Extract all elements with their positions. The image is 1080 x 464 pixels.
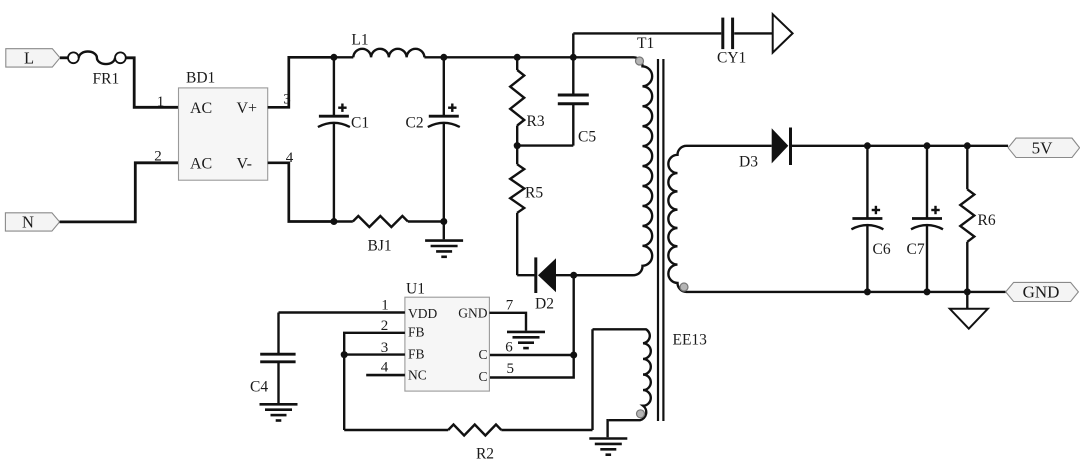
svg-text:R2: R2 (476, 446, 494, 463)
resistor R5 (510, 146, 524, 276)
node (330, 218, 337, 225)
polarity dot (636, 57, 644, 65)
node (570, 272, 577, 279)
node (924, 142, 931, 149)
svg-text:N: N (22, 213, 34, 232)
svg-text:7: 7 (506, 298, 514, 314)
node (514, 54, 521, 61)
svg-text:FR1: FR1 (93, 71, 120, 88)
pin 4 (286, 150, 294, 166)
node (864, 288, 871, 295)
wire (334, 220, 353, 222)
terminal GND (1006, 282, 1079, 301)
resistor R2 (448, 425, 501, 436)
ground (260, 404, 298, 420)
label D2 (535, 296, 554, 313)
wire (966, 292, 968, 309)
svg-text:BD1: BD1 (186, 70, 215, 87)
wire (573, 33, 721, 57)
pin 4 (381, 359, 389, 375)
capacitor CY1 (723, 18, 773, 49)
svg-text:FB: FB (408, 325, 425, 340)
terminal 5V (1008, 138, 1080, 158)
svg-text:5: 5 (506, 361, 514, 377)
svg-text:D3: D3 (739, 154, 758, 171)
svg-text:T1: T1 (637, 35, 654, 52)
svg-text:GND: GND (1023, 283, 1060, 302)
svg-text:C1: C1 (351, 115, 369, 132)
label FR1 (93, 71, 120, 88)
node (964, 142, 971, 149)
label CY1 (717, 49, 746, 66)
wire (126, 58, 179, 108)
svg-text:R6: R6 (978, 212, 996, 229)
svg-text:R5: R5 (525, 185, 543, 202)
wire (279, 311, 405, 313)
node (514, 142, 521, 149)
pin 6 (505, 339, 513, 355)
node (330, 54, 337, 61)
wire (424, 56, 633, 58)
svg-text:C4: C4 (250, 379, 268, 396)
ground (507, 332, 545, 348)
diode D3 (772, 128, 868, 166)
pin 3 (381, 340, 389, 356)
pin 2 (154, 149, 162, 165)
label U1 (406, 281, 425, 298)
svg-text:U1: U1 (406, 281, 425, 298)
transformer core (658, 59, 663, 421)
pin 2 (381, 318, 389, 334)
node (570, 54, 577, 61)
label BJ1 (368, 238, 392, 255)
ground (425, 222, 463, 257)
polarity dot (637, 410, 645, 418)
resistor R6 (960, 146, 974, 292)
ground (950, 309, 988, 329)
label T1 (637, 35, 654, 52)
diode D2 (517, 257, 633, 293)
terminal L (6, 49, 60, 68)
polarity dot (680, 283, 688, 291)
terminal N (5, 213, 59, 232)
svg-text:6: 6 (505, 339, 513, 355)
node (964, 288, 971, 295)
node (570, 352, 577, 359)
label EE13 (673, 332, 708, 349)
terminal chassis (773, 14, 793, 52)
capacitor C7 (911, 146, 943, 292)
svg-text:CY1: CY1 (717, 49, 746, 66)
pin 1 (381, 298, 389, 314)
transformer T1 primary (574, 57, 652, 275)
svg-text:NC: NC (408, 368, 427, 383)
svg-text:V-: V- (237, 156, 252, 173)
pin 7 (506, 298, 514, 314)
pin 5 (506, 361, 514, 377)
svg-text:5V: 5V (1032, 139, 1054, 158)
svg-text:R3: R3 (527, 113, 545, 130)
svg-text:V+: V+ (237, 100, 258, 117)
svg-text:VDD: VDD (408, 306, 437, 321)
label C7 (907, 241, 925, 258)
capacitor C4 (260, 313, 295, 404)
fuse FR1 (68, 52, 126, 65)
svg-text:GND: GND (458, 306, 487, 321)
wire (501, 329, 592, 430)
label BD1 (186, 70, 215, 87)
svg-text:L1: L1 (351, 32, 368, 49)
ground (589, 420, 627, 455)
svg-text:EE13: EE13 (673, 332, 708, 349)
pin 3 (283, 92, 291, 108)
controller U1 (405, 297, 490, 391)
svg-text:C7: C7 (907, 241, 925, 258)
transformer T1 secondary (668, 146, 867, 292)
label R6 (978, 212, 996, 229)
bridge rectifier BD1 (179, 88, 268, 180)
wire (60, 163, 179, 222)
label C1 (351, 115, 369, 132)
transformer T1 auxiliary (593, 329, 651, 420)
svg-text:4: 4 (381, 359, 389, 375)
wire (489, 354, 573, 356)
wire (366, 374, 405, 377)
label D3 (739, 154, 758, 171)
svg-text:AC: AC (190, 156, 212, 173)
svg-text:C2: C2 (406, 115, 424, 132)
node (440, 218, 447, 225)
wire (344, 333, 405, 430)
svg-text:C: C (478, 347, 487, 362)
resistor BJ1 (353, 216, 408, 227)
wire (268, 57, 334, 107)
capacitor C5 (517, 57, 589, 145)
capacitor C6 (851, 146, 883, 292)
svg-text:2: 2 (154, 149, 162, 165)
svg-text:AC: AC (190, 100, 212, 117)
label C2 (406, 115, 424, 132)
node (440, 54, 447, 61)
capacitor C2 (428, 57, 460, 221)
wire (867, 145, 1008, 147)
label C6 (873, 241, 891, 258)
inductor L1 (353, 49, 424, 57)
label L1 (351, 32, 368, 49)
wire (489, 313, 526, 331)
svg-text:C6: C6 (873, 241, 891, 258)
label R3 (527, 113, 545, 130)
svg-text:C: C (478, 369, 487, 384)
svg-text:C5: C5 (578, 129, 596, 146)
svg-text:FB: FB (408, 347, 425, 362)
wire (344, 353, 405, 355)
wire (867, 291, 1005, 293)
wire (334, 56, 353, 58)
svg-text:D2: D2 (535, 296, 554, 313)
wire (489, 275, 573, 377)
wire (344, 429, 448, 431)
wire (268, 163, 334, 222)
label R2 (476, 446, 494, 463)
node (341, 351, 348, 358)
label R5 (525, 185, 543, 202)
node (924, 288, 931, 295)
svg-text:L: L (24, 49, 34, 68)
wire (60, 56, 68, 59)
resistor R3 (510, 57, 524, 145)
wire (408, 220, 444, 222)
svg-text:BJ1: BJ1 (368, 238, 392, 255)
label C4 (250, 379, 268, 396)
label C5 (578, 129, 596, 146)
capacitor C1 (318, 57, 350, 221)
pin 1 (157, 94, 165, 110)
svg-text:1: 1 (157, 94, 165, 110)
node (864, 142, 871, 149)
